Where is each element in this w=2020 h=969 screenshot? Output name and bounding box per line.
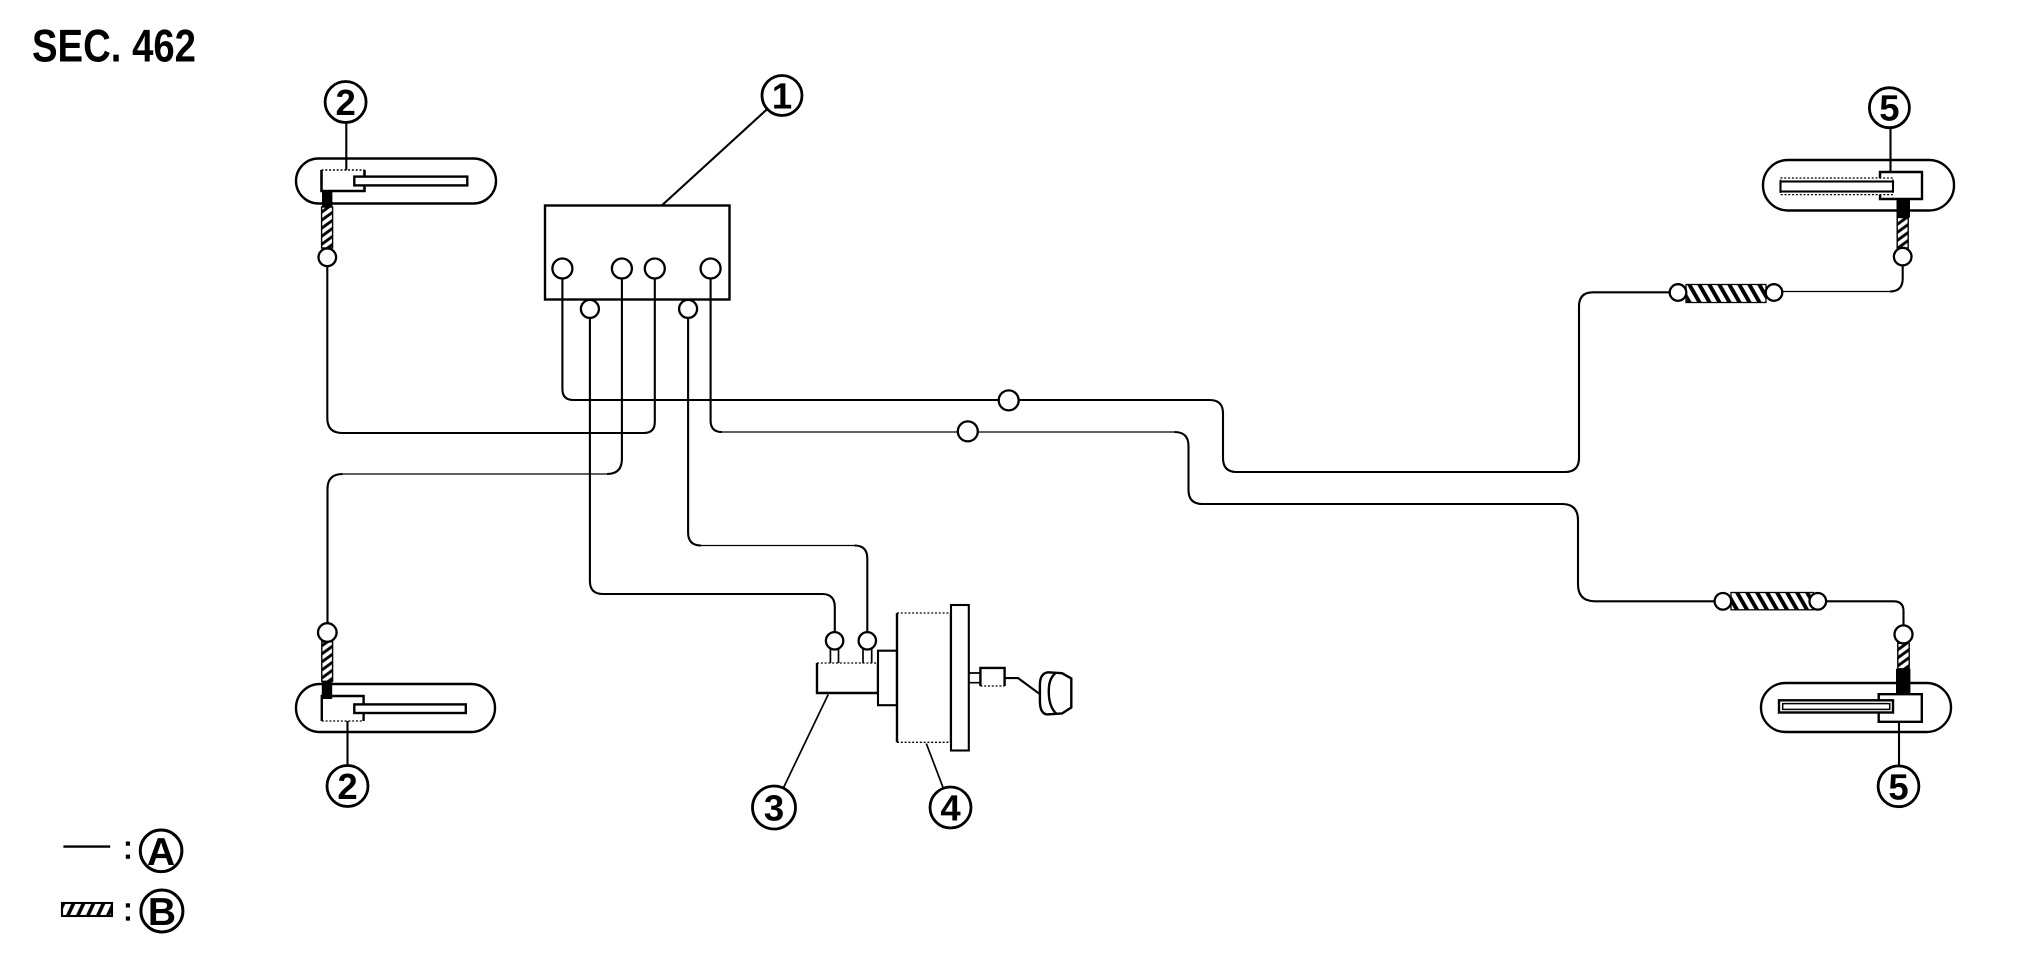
wire front-right light horizontal to hose [1782, 291, 1890, 293]
port circle P4 [701, 259, 721, 279]
master cylinder ball fitting rear [859, 632, 876, 649]
master cylinder ball stem front [830, 649, 838, 663]
rear-left tube nut circle [318, 623, 337, 642]
front-left wheel cylinder stadium [296, 159, 496, 204]
legend line sample A [63, 845, 110, 847]
callout 2 circle (rear-left) [327, 766, 368, 807]
callout 1 leader [662, 109, 767, 205]
front-right hose hatched section [1897, 218, 1908, 249]
legend colon B [126, 903, 130, 907]
callout 1 circle [762, 76, 802, 116]
callout 2 leader (top) [345, 123, 347, 171]
rear-right hose right eye circle [1810, 593, 1827, 610]
wire B1: tube from lower port B1 to master cylinder front ball [590, 318, 835, 632]
brake pedal pad [1040, 672, 1071, 714]
legend colon A [126, 842, 130, 846]
union circle on wire P4 [958, 421, 978, 441]
rear-right tube nut circle [1895, 625, 1913, 643]
rear-right hose left eye circle [1715, 593, 1732, 610]
union circle on wire P1 [999, 390, 1019, 410]
callout 5 leader (bottom) [1898, 722, 1900, 766]
legend circle A [140, 830, 182, 872]
master cylinder ball fitting front [826, 632, 843, 649]
front-right wheel cylinder stadium [1763, 160, 1954, 211]
wire B2 curve down to rear ball fitting [855, 546, 868, 633]
callout 4 circle [930, 787, 971, 828]
callout 4 leader [926, 744, 943, 789]
rear-left caliper block bottom dotted edge [322, 720, 364, 722]
front-right hose black fitting [1897, 199, 1911, 218]
port circle P1 [552, 259, 572, 279]
rear-right slide bar inner [1783, 704, 1890, 710]
pedal rod [1005, 678, 1041, 695]
front-left slide bar [354, 177, 467, 186]
svg-text:1: 1 [772, 76, 792, 117]
front-right slide bar inner [1781, 182, 1894, 192]
wire P4 continuation to rear-right hose [1175, 432, 1715, 601]
port circle B1 below box [581, 300, 599, 318]
front-left hose black fitting [322, 191, 332, 208]
wire B2: tube from lower port B2, vertical drop [688, 318, 701, 546]
svg-text:SEC. 462: SEC. 462 [32, 20, 196, 72]
front-right hose right eye circle [1766, 284, 1783, 301]
rear-left caliper block [322, 696, 364, 721]
wire P2: rear-left brake tube (port 2 to rear-left hose) [607, 279, 622, 475]
wire P2 left curve down to rear-left hose [328, 474, 343, 623]
svg-text:2: 2 [337, 766, 357, 807]
rear-left wheel cylinder stadium [296, 684, 495, 732]
port circle P3 [645, 259, 665, 279]
svg-text:4: 4 [940, 788, 961, 829]
front-right tube nut circle [1894, 248, 1912, 266]
rear-right caliper block [1879, 694, 1922, 722]
front-left tube nut circle [319, 248, 337, 266]
rear-left hose black fitting [322, 681, 332, 699]
rear-right slide bar [1779, 700, 1893, 712]
wire from front-right nut down to bend [1890, 265, 1903, 291]
rear-left hose hatched section [322, 642, 333, 682]
callout 2 leader (bottom) [346, 721, 348, 766]
svg-text:3: 3 [764, 788, 784, 829]
rear-right wheel cylinder stadium [1761, 683, 1951, 732]
wire P2 light horizontal segment [343, 473, 607, 475]
front-right flexible hose hatched [1686, 285, 1766, 303]
legend circle B [141, 890, 183, 932]
port circle P2 [612, 259, 632, 279]
master cylinder body (item 3) [817, 663, 878, 693]
rear-right hose hatched section [1898, 643, 1909, 669]
master cylinder flange [878, 651, 897, 706]
front-right slide bar outer dotted [1781, 178, 1894, 195]
wire B2 light horizontal segment [701, 545, 854, 547]
callout 5 circle (front-right) [1869, 88, 1909, 128]
front-left caliper block [322, 170, 365, 191]
wire P3: front-left brake tube (port 3 to front-left hose) [327, 266, 655, 433]
callout 5 circle (rear-right) [1878, 766, 1919, 807]
master cylinder body top dotted edge [817, 662, 878, 664]
legend hatched sample B [62, 903, 112, 916]
rear-right hose black fitting [1896, 669, 1910, 694]
wire P4 light horizontal segment [722, 431, 1175, 433]
rear-left slide bar [354, 704, 466, 713]
ABS actuator box (item 1) [545, 206, 730, 300]
master cylinder ball stem rear [863, 649, 872, 663]
front-left hose hatched section [322, 207, 333, 248]
svg-text:2: 2 [335, 82, 355, 123]
brake booster body (item 4) [897, 613, 951, 742]
wire P4: tube from port 4, vertical drop [711, 279, 722, 433]
port circle B2 below box [679, 300, 697, 318]
brake pedal pad inner edge [1049, 673, 1057, 714]
front-right caliper block [1880, 172, 1922, 199]
rear-right caliper block top dotted edge [1879, 693, 1922, 695]
callout 3 circle [753, 786, 796, 829]
svg-text:B: B [148, 891, 176, 934]
clevis block [980, 668, 1004, 686]
booster rear plate [951, 605, 969, 751]
front-right hose left eye circle [1670, 284, 1687, 301]
svg-text:5: 5 [1888, 766, 1908, 807]
clevis bottom dotted edge [980, 685, 1004, 687]
booster body dotted top and bottom edges [897, 613, 951, 742]
callout 5 leader (top) [1889, 128, 1891, 173]
svg-text:5: 5 [1879, 88, 1899, 129]
svg-text:A: A [147, 831, 175, 874]
callout 2 circle (front-left) [325, 82, 366, 123]
wire P1: tube from port 1 to front-right hose [562, 279, 1669, 473]
rear-right flexible hose hatched [1731, 593, 1814, 610]
wire from rear-right nut to hose [1826, 601, 1904, 625]
front-left caliper block top dotted edge [322, 169, 365, 171]
callout 3 leader [783, 695, 828, 789]
booster push rod [969, 673, 981, 683]
